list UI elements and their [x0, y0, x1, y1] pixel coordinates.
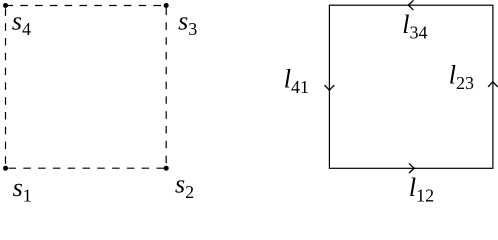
svg-text:s1: s1: [13, 173, 32, 205]
vertex dot s2 (bottom-right): [164, 166, 169, 171]
vertex dot s4 (top-left): [3, 3, 8, 8]
svg-text:l12: l12: [409, 173, 434, 205]
vertex dot s1 (bottom-left): [3, 166, 8, 171]
solid square (right figure): [329, 5, 493, 168]
svg-text:l23: l23: [449, 60, 474, 93]
svg-text:s4: s4: [12, 6, 31, 39]
svg-text:s3: s3: [178, 7, 197, 40]
arrow on left edge (pointing down): [325, 86, 334, 91]
dashed square (left figure): [6, 6, 167, 169]
arrow on top edge (pointing left): [408, 1, 413, 10]
vertex dot s3 (top-right): [164, 3, 169, 8]
arrow on right edge (pointing up): [488, 82, 497, 87]
svg-text:l34: l34: [402, 10, 427, 43]
svg-text:s2: s2: [175, 170, 194, 203]
arrow on bottom edge (pointing right): [409, 164, 414, 173]
svg-text:l41: l41: [284, 64, 309, 97]
